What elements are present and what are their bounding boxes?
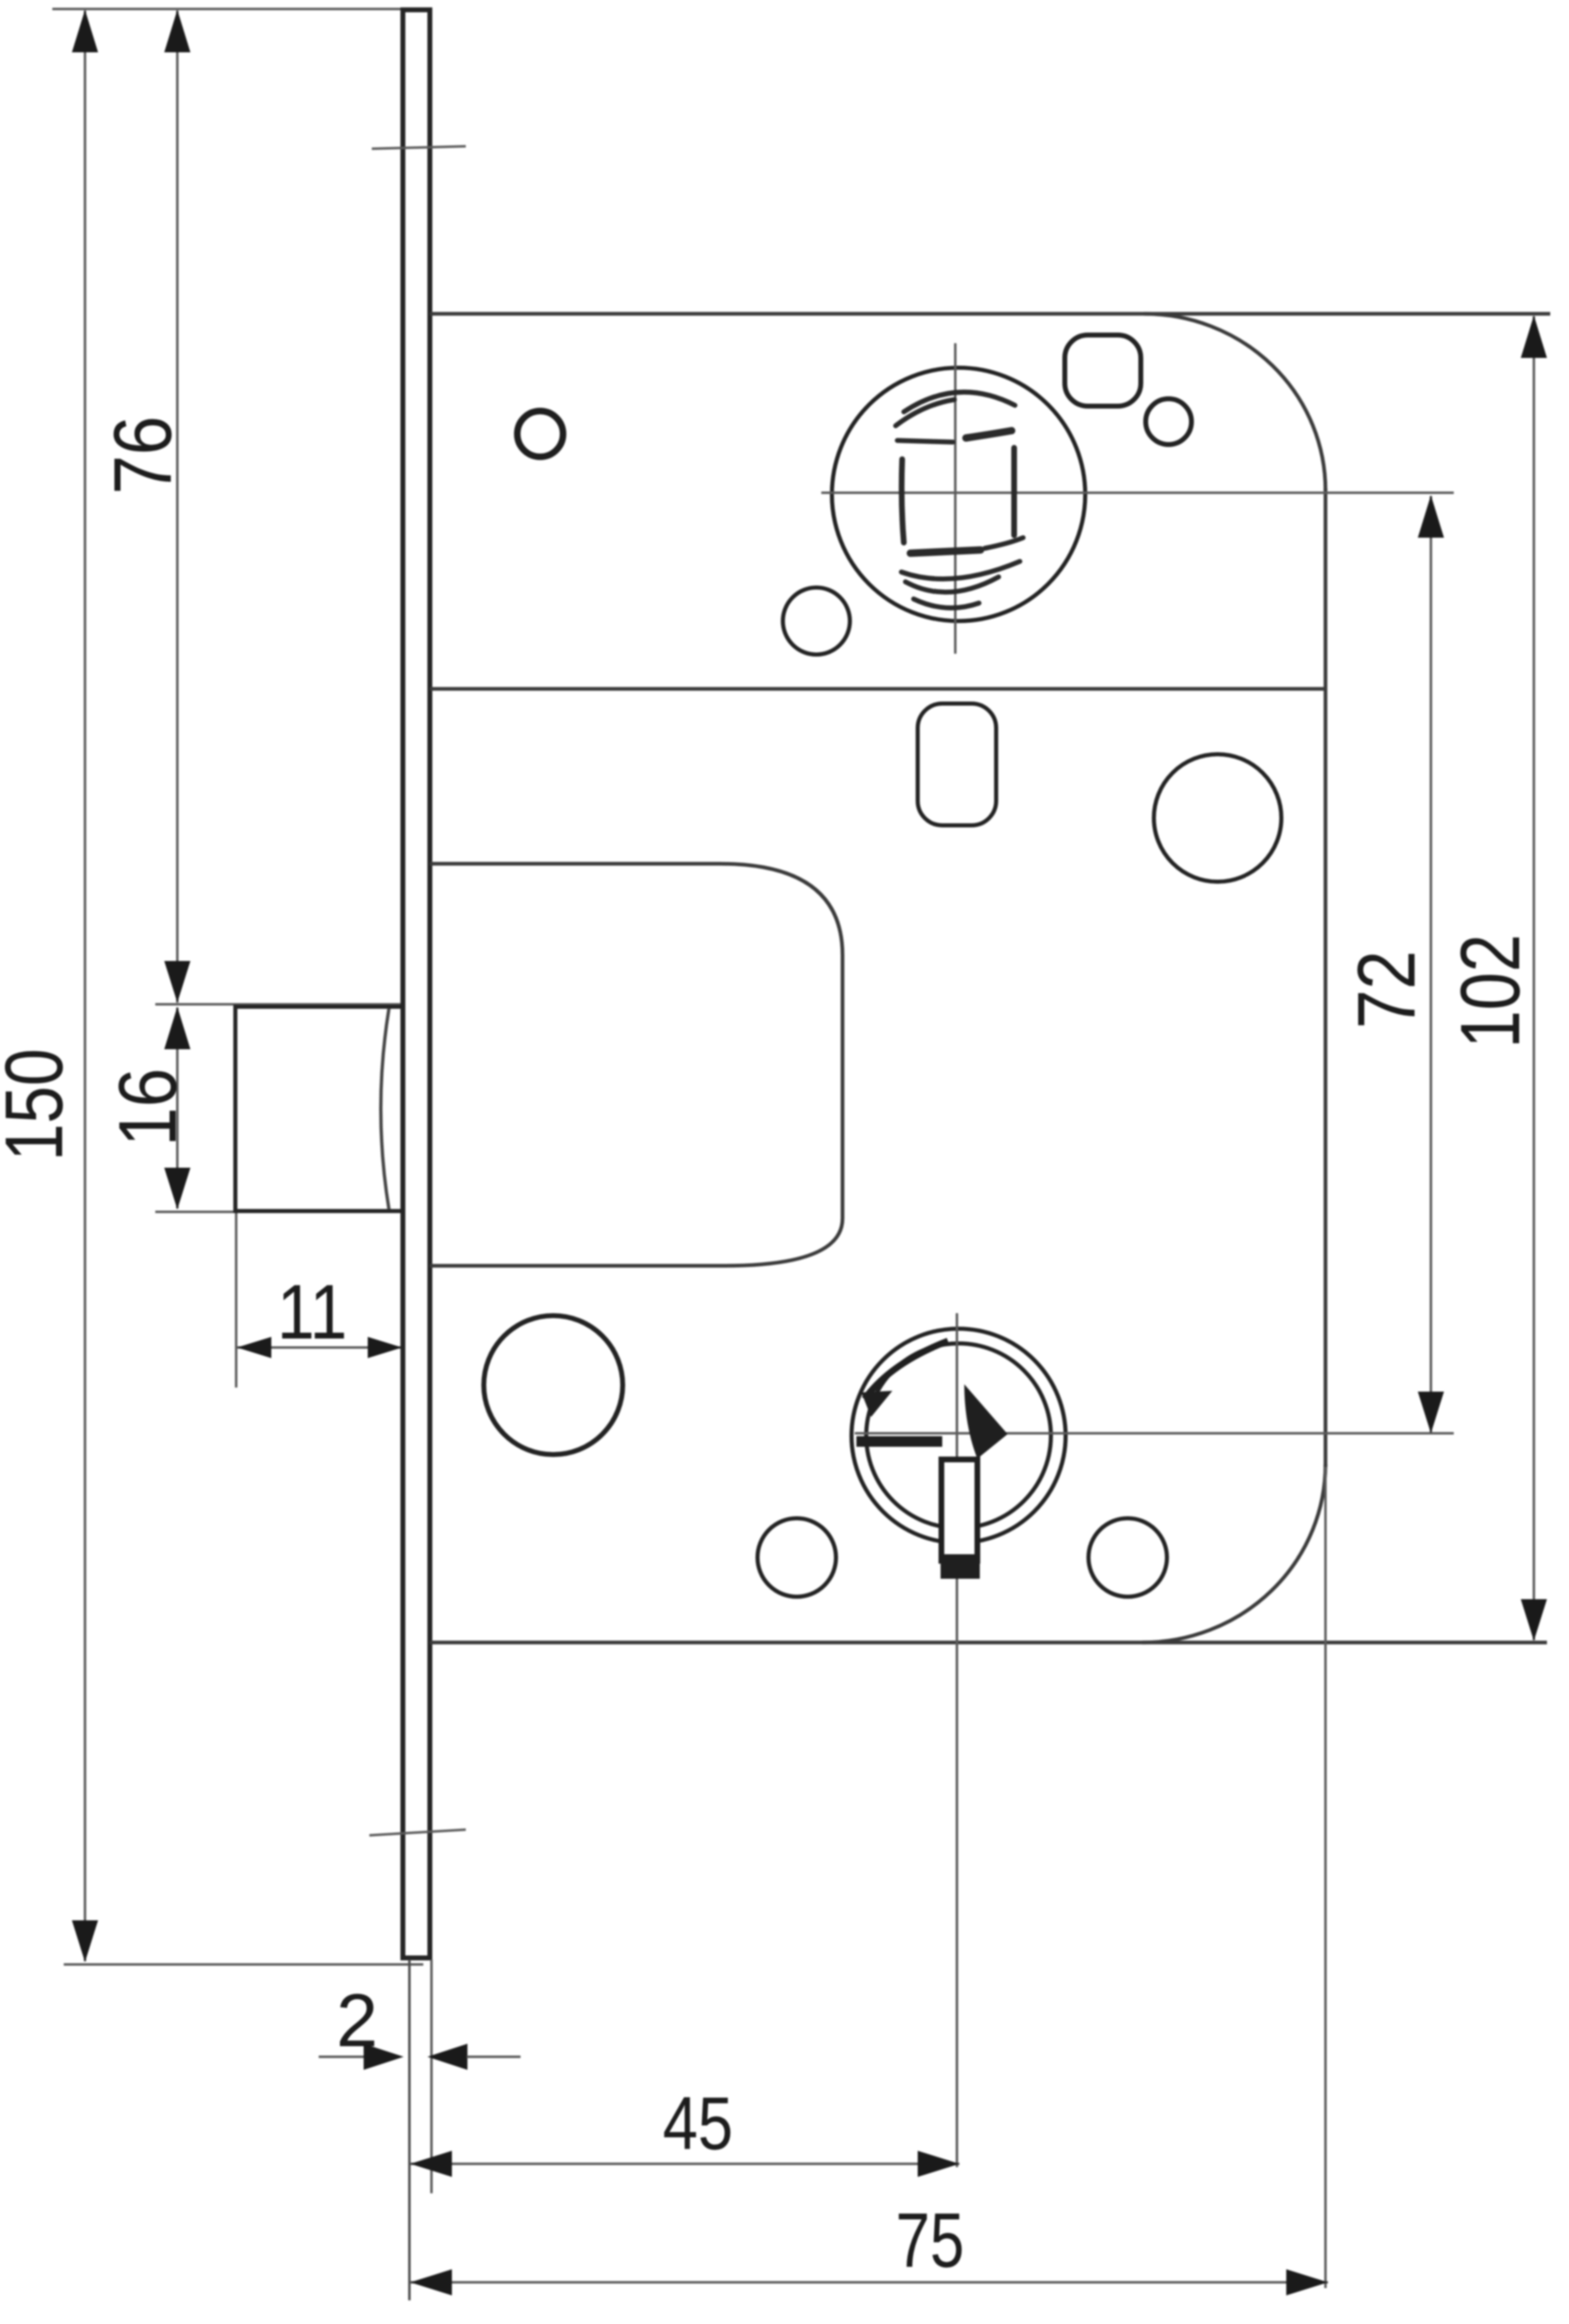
dimension line 11 (237, 1347, 402, 1349)
arrow 150 bottom (72, 1920, 98, 1962)
arrow 11 right (368, 1337, 402, 1358)
arrow 102 bottom (1521, 1599, 1547, 1641)
arrow 76 top (164, 10, 190, 52)
dimension line 72 (1430, 496, 1433, 1432)
dimension line 45 (410, 2163, 959, 2165)
arrow 16 bottom (164, 1168, 190, 1209)
dimension line 102 (1533, 316, 1535, 1640)
svg-text:76: 76 (97, 416, 189, 494)
svg-text:45: 45 (663, 2082, 733, 2165)
body bottom-right arc (1142, 1464, 1325, 1642)
faceplate tick top (372, 146, 466, 149)
large circle bottom left (484, 1316, 623, 1455)
dimension line 16 (177, 1008, 179, 1209)
arrow 76 bottom (164, 961, 190, 1003)
cylinder circle (832, 368, 1085, 621)
faceplate left extension below (409, 1960, 411, 2300)
circle below cylinder (783, 588, 850, 655)
svg-text:16: 16 (102, 1068, 194, 1146)
dim 2 left leader (319, 2056, 364, 2058)
hub spindle sketch (856, 1341, 1008, 1579)
faceplate tick bottom (369, 1830, 466, 1835)
arrow 75 left (410, 2269, 452, 2295)
body right edge (1324, 489, 1328, 1467)
rounded rect hole below divider (918, 704, 996, 825)
right edge extension below (1325, 1467, 1327, 2288)
body divider line (430, 687, 1325, 691)
dimension line 75 (410, 2282, 1328, 2284)
small circle top right (1146, 399, 1191, 445)
bottom extension line for 150 (64, 1964, 423, 1966)
body bottom line (430, 1641, 1547, 1645)
latch bevel line (381, 1008, 389, 1209)
hub horizontal centerline (855, 1432, 1454, 1435)
body top line (430, 312, 1550, 316)
arrow 45 left (410, 2151, 452, 2177)
svg-text:102: 102 (1443, 934, 1537, 1048)
svg-text:75: 75 (896, 2197, 964, 2284)
body top-right arc (1144, 314, 1325, 490)
hub outer circle (852, 1329, 1066, 1543)
small hole o (517, 411, 563, 457)
arrow 75 right (1286, 2269, 1328, 2295)
svg-text:150: 150 (0, 1048, 80, 1161)
rounded square hole top right (1065, 335, 1141, 406)
arrow 72 top (1418, 495, 1444, 538)
cylinder vertical centerline (954, 343, 957, 654)
svg-text:11: 11 (277, 1269, 347, 1356)
svg-text:72: 72 (1341, 950, 1433, 1029)
faceplate (403, 10, 430, 1958)
arrow 102 top (1521, 315, 1547, 358)
extension line for 11 (235, 1212, 238, 1388)
circle mid right (1154, 754, 1281, 882)
latch top extension line (155, 1003, 402, 1006)
arrow 11 left (237, 1337, 271, 1358)
dimension line 150 (84, 11, 87, 1961)
dimension line 76 (177, 11, 179, 1003)
arrow 150 top (72, 10, 98, 52)
cylinder horizontal centerline (821, 492, 1454, 494)
faceplate right extension below (431, 1960, 433, 2193)
large follower cavity (430, 864, 843, 1266)
latch bolt (235, 1007, 403, 1211)
hub vertical centerline (956, 1313, 959, 2167)
small circle bottom right (1088, 1518, 1167, 1597)
top extension line (52, 8, 405, 11)
dim 2 right leader (467, 2056, 521, 2058)
arrow 72 bottom (1418, 1392, 1444, 1433)
small circle bottom left (758, 1518, 836, 1597)
cylinder keyway sketch (896, 392, 1023, 608)
arrow 16 top (164, 1007, 190, 1049)
arrow 2 left (364, 2044, 404, 2070)
arrow 2 right (427, 2044, 467, 2070)
arrow 45 right (918, 2151, 959, 2177)
hub inner circle (866, 1343, 1051, 1528)
latch bottom extension line (155, 1211, 400, 1213)
